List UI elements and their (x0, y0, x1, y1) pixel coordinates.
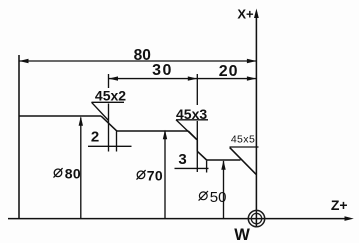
dia-70 dimension line (164, 131, 166, 219)
svg-text:W: W (234, 226, 250, 243)
arrowhead dia-80 up (79, 116, 83, 126)
diameter symbol of dia-70 (137, 170, 146, 180)
extension line at x=197.3 (20/30 dim), upper part (196, 74, 198, 105)
arrowhead dia-70 up (163, 130, 167, 140)
extension line at x=108.5 (30 dim / 2 dim), lower part (108, 104, 110, 152)
arrowhead X axis up (254, 9, 259, 19)
dimension line for 2 (88, 145, 132, 147)
extension line right of 3-dim (206, 161, 208, 173)
chamfer 45x2 edge (101, 116, 117, 131)
svg-text:80: 80 (134, 47, 151, 64)
arrowhead dim 80 left (19, 59, 29, 63)
step face dia-70 to dia-50 (196, 140, 198, 151)
underline of 45x2 label (92, 101, 125, 103)
leader of 45x2 label (92, 102, 109, 120)
dimension line 30 (109, 78, 198, 80)
part left face + dim-80 extension line (18, 55, 20, 219)
dimension line 20 (197, 78, 256, 80)
chamfer 45x5 leader and edge (230, 148, 257, 175)
X axis line / part right face (255, 12, 257, 227)
arrowhead dim 80 right (247, 59, 257, 63)
svg-text:X+: X+ (237, 7, 254, 22)
arrowhead dim 20 right (247, 76, 257, 80)
underline of 45x3 label (176, 119, 208, 121)
extension line at x=108.5 (30 dim), upper part (108, 74, 110, 88)
dia-50 dimension line (223, 161, 225, 219)
chamfer edge at dia-70 right shoulder (188, 131, 197, 140)
workpiece datum symbol W: outer circle (248, 210, 264, 226)
svg-text:3: 3 (178, 151, 186, 168)
svg-text:45x3: 45x3 (176, 106, 207, 122)
arrowhead Z axis right (345, 216, 354, 221)
dimension line 80 (19, 60, 256, 62)
arrowhead dim 30 right (188, 76, 198, 80)
part top of dia-50 cylinder (207, 159, 241, 161)
arrowhead dia-50 up (221, 160, 225, 170)
dimension line for 3 (175, 167, 209, 169)
extension line at x=197.3 (3 dim), lower part (196, 121, 198, 172)
svg-text:2: 2 (91, 129, 99, 146)
svg-text:45x5: 45x5 (231, 134, 255, 146)
Z axis line (8, 218, 346, 220)
workpiece datum symbol W: inner circle (251, 213, 261, 223)
svg-text:Z+: Z+ (331, 197, 348, 213)
svg-text:50: 50 (210, 189, 227, 206)
chamfer 45x3 edge (197, 151, 206, 160)
extension line right of 2-dim (116, 132, 118, 152)
svg-text:30: 30 (152, 62, 173, 79)
part top of dia-80 cylinder (19, 115, 101, 117)
svg-text:20: 20 (219, 63, 239, 80)
arrowhead dim 30 left (109, 76, 119, 80)
diameter symbol of dia-80 (54, 168, 63, 178)
diameter symbol of dia-50 (199, 191, 208, 201)
underline of 45x5 label (230, 146, 259, 148)
part top of dia-70 cylinder (117, 130, 189, 132)
svg-text:80: 80 (65, 166, 81, 182)
svg-text:45x2: 45x2 (95, 88, 126, 104)
dia-80 dimension line (80, 118, 82, 219)
svg-text:70: 70 (147, 168, 163, 184)
leader of 45x3 label (176, 120, 197, 140)
